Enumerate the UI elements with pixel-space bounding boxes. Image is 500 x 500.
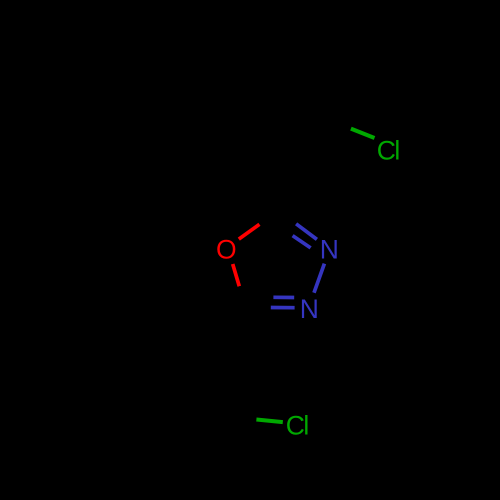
svg-text:Cl: Cl — [286, 410, 309, 440]
svg-text:O: O — [216, 235, 237, 265]
bond O1-C5 carbon half (black) — [239, 286, 246, 308]
bond to bottom Cl, green half — [256, 420, 282, 423]
bond C2-ipso (top) — [275, 148, 279, 212]
bond C5-ipso (bottom) — [208, 308, 246, 359]
carbon half of bond to bottom Cl — [230, 417, 256, 420]
top phenyl ring (carbon bonds, black = invisible on black) — [219, 22, 351, 211]
oxadiazole ring bonds — [233, 211, 325, 308]
bond O1-C2 carbon half (black) — [260, 211, 278, 224]
bond to top Cl, green half — [351, 129, 375, 138]
bond C2=N3 inner line blue half — [293, 236, 311, 248]
svg-text:N: N — [300, 294, 319, 324]
bond C5=N4 main line blue half — [271, 306, 295, 310]
bond N3-N4 — [314, 264, 324, 293]
bond O1-C2 red half — [239, 224, 260, 239]
bottom phenyl ring (carbon bonds, black = invisible on black) — [107, 308, 256, 466]
bond C2=N3 main line blue half — [296, 224, 317, 240]
svg-text:Cl: Cl — [377, 135, 400, 165]
svg-text:N: N — [320, 235, 339, 265]
carbon half of bond to top Cl — [327, 119, 351, 128]
bond C5=N4 inner line blue half — [273, 295, 294, 299]
bond O1-C5 red half — [233, 264, 240, 286]
